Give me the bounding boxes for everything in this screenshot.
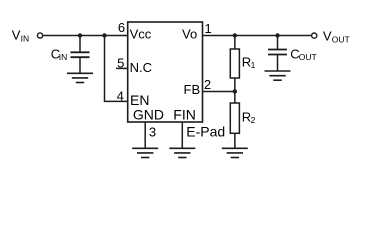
svg-text:N.C: N.C bbox=[130, 60, 152, 75]
svg-text:1: 1 bbox=[205, 21, 212, 36]
svg-text:Vo: Vo bbox=[182, 27, 197, 42]
svg-text:4: 4 bbox=[117, 89, 124, 104]
svg-text:2: 2 bbox=[251, 115, 256, 125]
wire Cin lead bbox=[79, 36, 81, 74]
svg-text:OUT: OUT bbox=[332, 34, 350, 44]
label R2 bbox=[242, 109, 256, 125]
wire output rail bbox=[203, 35, 312, 37]
svg-text:IN: IN bbox=[21, 34, 30, 44]
wire EN (Vin to pin 4) bbox=[104, 36, 127, 102]
label Vout bbox=[323, 29, 350, 45]
svg-text:IN: IN bbox=[59, 52, 68, 62]
svg-text:V: V bbox=[323, 29, 332, 44]
IC U1 body bbox=[128, 22, 203, 122]
label Vin bbox=[12, 28, 29, 44]
svg-text:E-Pad: E-Pad bbox=[186, 123, 225, 139]
resistor R2 bbox=[230, 103, 239, 133]
node Vout/Cout junction bbox=[275, 33, 279, 37]
svg-text:2: 2 bbox=[204, 77, 211, 92]
ground (COUT) bbox=[265, 71, 291, 80]
svg-text:GND: GND bbox=[133, 106, 164, 122]
resistor R1 bbox=[230, 49, 239, 78]
pin 5 stub (N.C) bbox=[116, 67, 127, 69]
wire R2 leads bbox=[234, 92, 236, 149]
wire Cout lead bbox=[277, 36, 279, 72]
ground (E-Pad) bbox=[169, 148, 195, 157]
capacitor CIN plates bbox=[71, 52, 90, 57]
svg-text:Vcc: Vcc bbox=[130, 27, 152, 42]
svg-text:5: 5 bbox=[117, 55, 124, 70]
svg-text:FIN: FIN bbox=[173, 106, 196, 122]
wire R1 leads bbox=[234, 36, 236, 92]
terminal Vin bbox=[37, 33, 42, 38]
svg-text:V: V bbox=[12, 28, 21, 43]
svg-text:1: 1 bbox=[251, 60, 256, 70]
wire FB (pin 2 to divider) bbox=[203, 91, 235, 93]
capacitor COUT plates bbox=[268, 50, 287, 55]
terminal Vout bbox=[312, 33, 317, 38]
ground (R2) bbox=[222, 148, 248, 157]
node Vin/Cin junction bbox=[78, 33, 82, 37]
label R1 bbox=[242, 54, 256, 70]
label COUT bbox=[290, 46, 316, 62]
label CIN bbox=[51, 46, 68, 62]
svg-text:FB: FB bbox=[184, 82, 201, 97]
node Vin/EN junction bbox=[102, 33, 106, 37]
node Vout/R1 junction bbox=[233, 33, 237, 37]
svg-text:3: 3 bbox=[149, 124, 156, 139]
ground (CIN) bbox=[67, 73, 93, 82]
wire pin 3 to ground bbox=[144, 122, 146, 148]
svg-text:EN: EN bbox=[130, 92, 149, 108]
node FB junction bbox=[233, 89, 237, 93]
svg-text:6: 6 bbox=[118, 20, 125, 35]
wire input rail bbox=[43, 35, 127, 37]
ground (pin 3) bbox=[132, 148, 158, 157]
wire E-Pad to ground bbox=[181, 122, 183, 148]
svg-text:OUT: OUT bbox=[299, 52, 317, 62]
